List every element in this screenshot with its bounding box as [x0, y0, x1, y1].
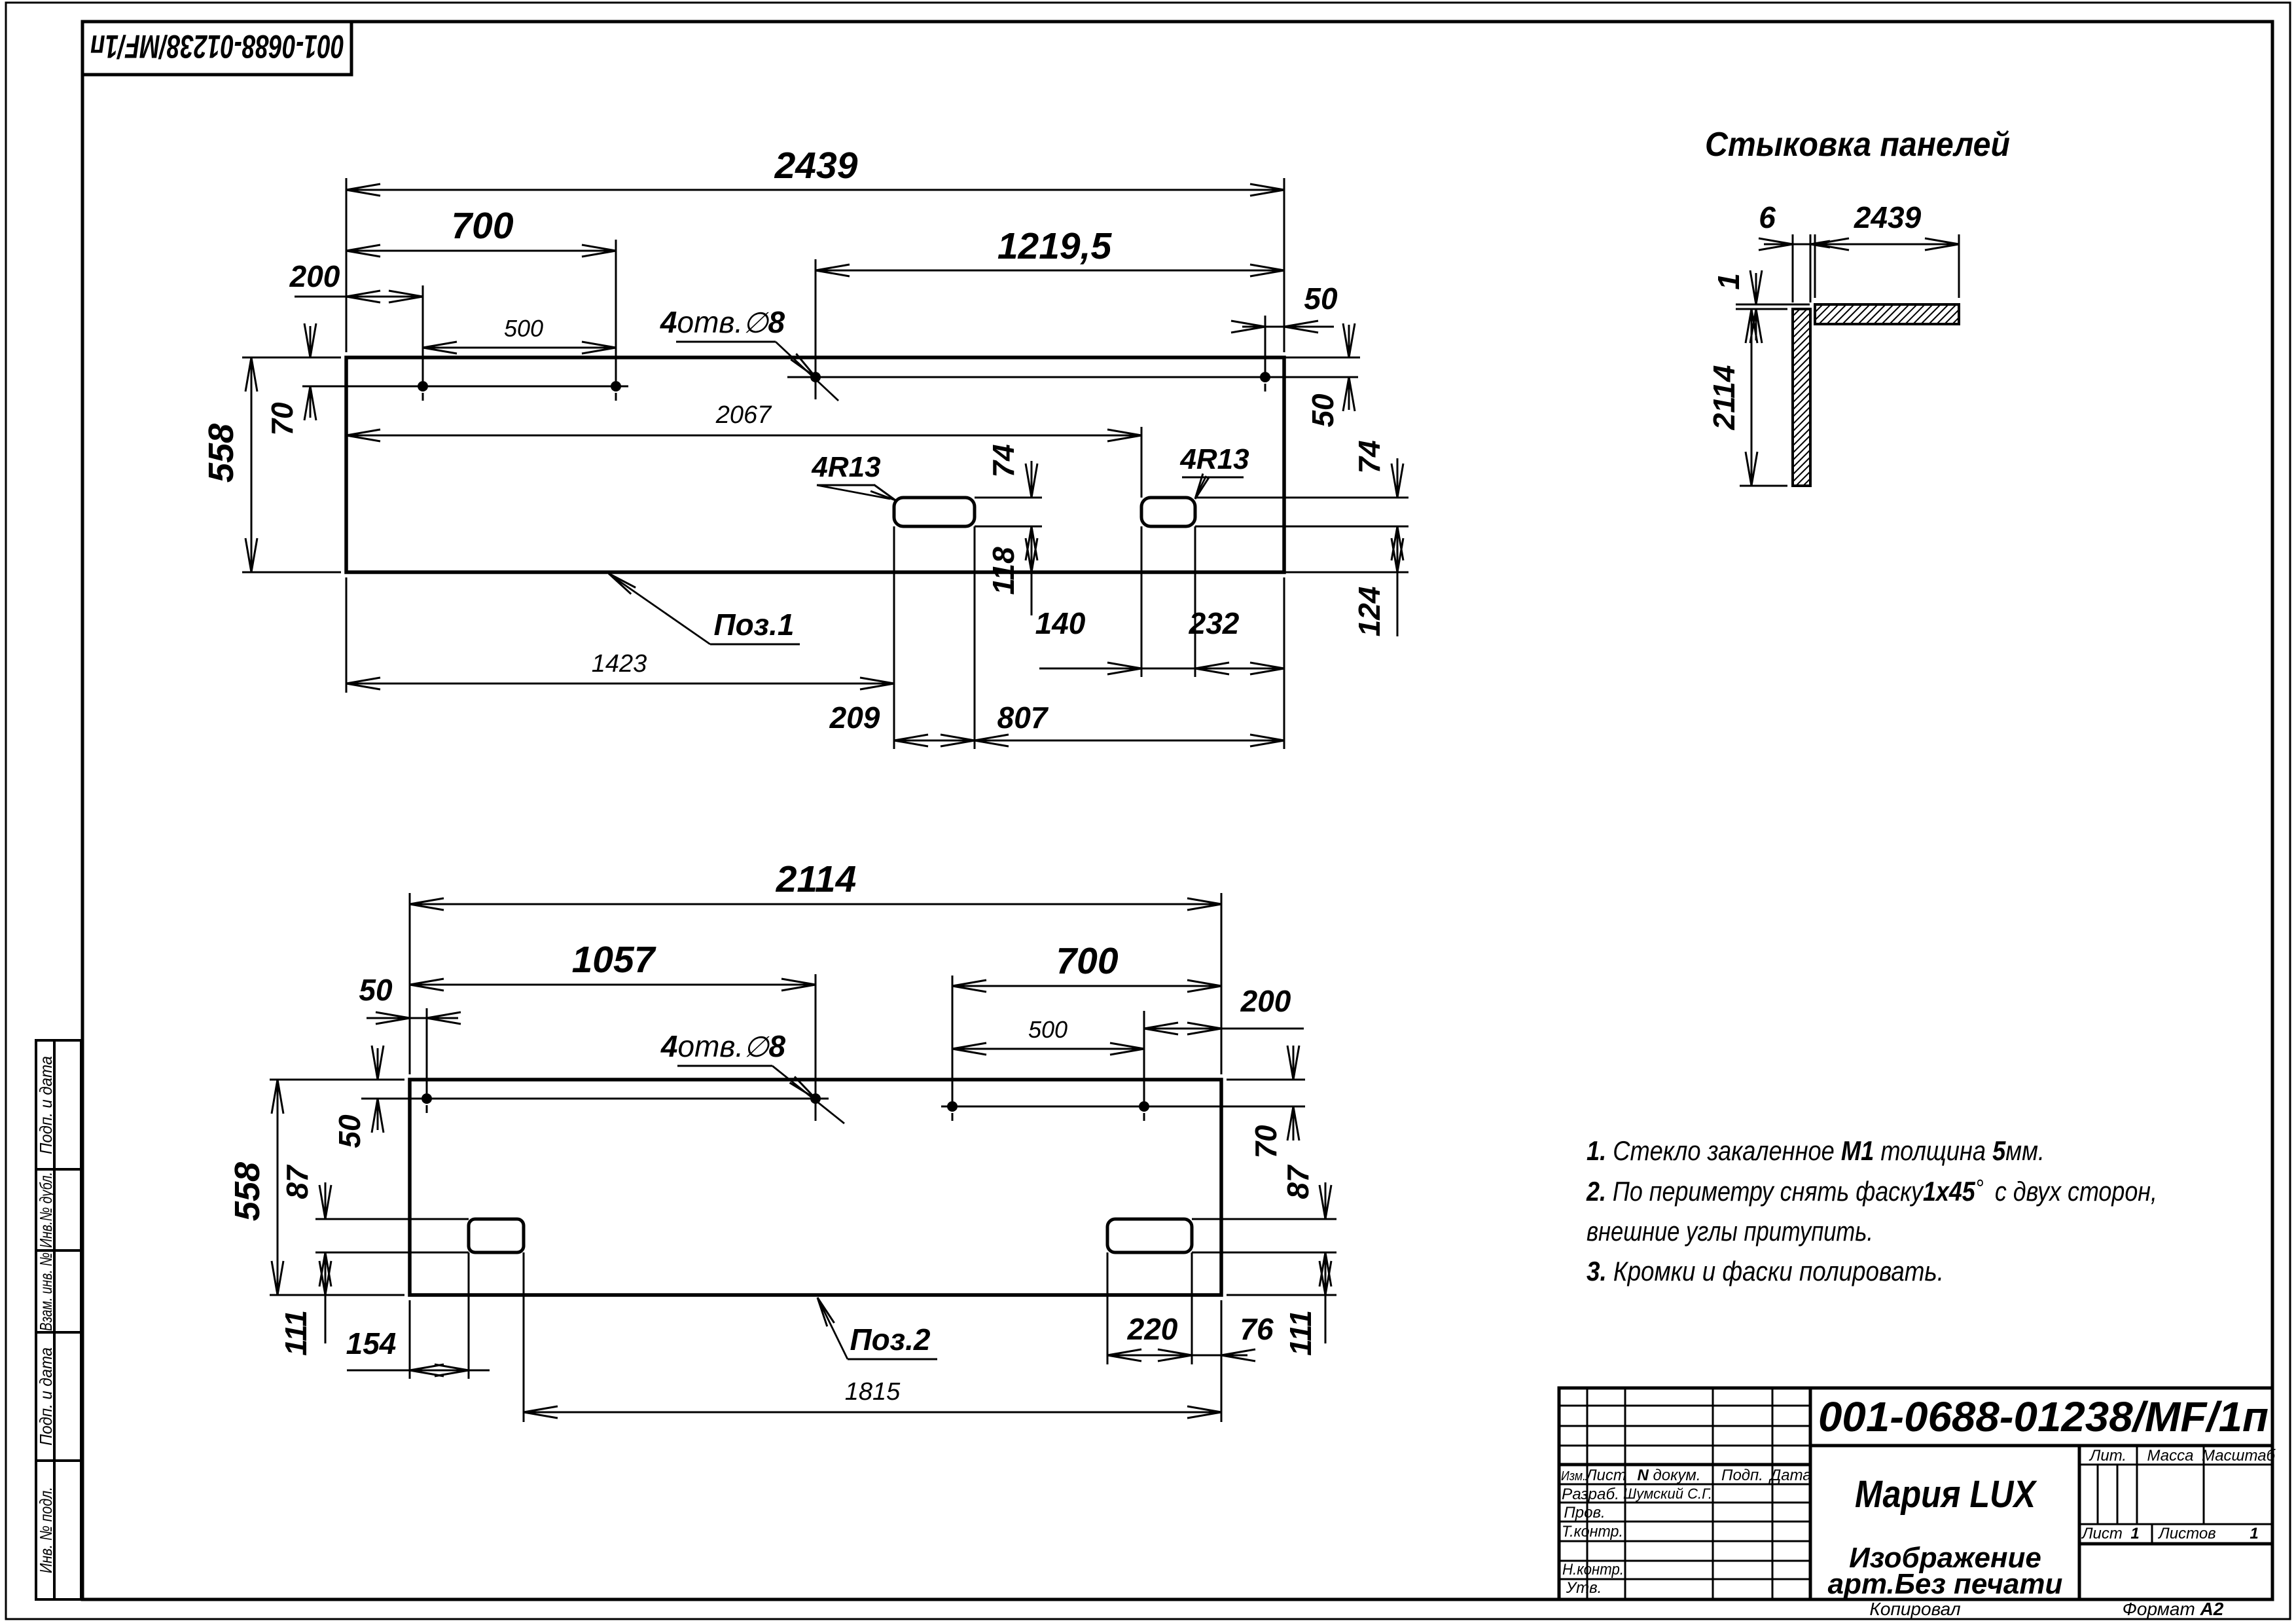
- dim 2439 text: [774, 145, 858, 187]
- panel 2 left holes line: [406, 1099, 816, 1113]
- dim 154 line: [347, 1364, 490, 1376]
- dim 232 text: [1189, 606, 1240, 640]
- svg-text:154: 154: [346, 1326, 397, 1360]
- svg-text:Копировал: Копировал: [1869, 1599, 1960, 1619]
- dim 50 p2 rot line: [372, 1046, 384, 1133]
- dim 1219,5 text: [997, 225, 1113, 267]
- title block small labels: [1561, 1467, 1812, 1597]
- ext p2 slot2 top right: [1192, 1218, 1336, 1220]
- svg-text:807: 807: [997, 701, 1049, 735]
- ext p2 bottom far left: [270, 1294, 404, 1296]
- svg-text:1219,5: 1219,5: [997, 225, 1113, 267]
- dim 87 left line: [319, 1182, 331, 1295]
- ext slot1 left down: [893, 526, 895, 749]
- note 2: [1586, 1175, 2157, 1207]
- svg-text:001-0688-01238/MF/1п: 001-0688-01238/MF/1п: [90, 28, 344, 65]
- ext hole line left: [302, 386, 418, 388]
- svg-text:111: 111: [279, 1310, 313, 1356]
- panel 1 slot left (4R13): [894, 498, 975, 526]
- svg-text:2439: 2439: [1854, 200, 1922, 234]
- svg-text:Шумский С.Г.: Шумский С.Г.: [1623, 1486, 1712, 1502]
- ext slot2 top right: [1195, 497, 1408, 499]
- svg-text:Мария LUX: Мария LUX: [1855, 1473, 2037, 1516]
- label Поз.2: [817, 1298, 937, 1359]
- label 4R13 slot1: [811, 451, 895, 500]
- dim 50 p2 line: [367, 1012, 461, 1024]
- ext line hole A up: [422, 285, 424, 381]
- ext panel2 left edge up: [409, 893, 411, 1074]
- svg-text:001-0688-01238/MF/1п: 001-0688-01238/MF/1п: [1818, 1393, 2269, 1440]
- panel 2 hole D: [1139, 1101, 1149, 1112]
- ext line hole B up: [615, 240, 617, 381]
- svg-text:2114: 2114: [776, 858, 857, 900]
- ext slot2 left down: [1141, 526, 1143, 677]
- svg-text:558: 558: [202, 424, 241, 483]
- svg-text:Разраб.: Разраб.: [1562, 1486, 1619, 1503]
- svg-text:1057: 1057: [572, 939, 656, 981]
- ext line hole D up: [1265, 316, 1266, 372]
- dim 200 line: [295, 291, 423, 302]
- ext line hole C up: [815, 259, 817, 372]
- ext p2 hole line left: [361, 1098, 419, 1100]
- dim 124 text: [1352, 587, 1386, 637]
- note 1: [1587, 1135, 2045, 1166]
- dim 2114 line: [410, 898, 1221, 910]
- detail dim 1: [1712, 270, 1762, 343]
- svg-text:Изм.: Изм.: [1561, 1469, 1586, 1484]
- dim 500 text: [504, 315, 543, 342]
- ext panel1 bottom left: [242, 572, 341, 574]
- title block grid: [1559, 1388, 2272, 1599]
- dim 220 text: [1127, 1312, 1178, 1346]
- svg-text:209: 209: [829, 701, 880, 735]
- detail dim 2439: [1815, 200, 1959, 250]
- doc number big: [1818, 1393, 2269, 1440]
- dim 1219,5 line: [816, 264, 1284, 276]
- dim 1057 text: [572, 939, 656, 981]
- panel 2 hole B: [810, 1093, 821, 1104]
- dim 2067 text: [715, 401, 772, 429]
- dim 50 right line: [1343, 323, 1355, 411]
- svg-text:Пров.: Пров.: [1564, 1504, 1605, 1522]
- label 4отв.⌀8 panel2: [660, 1029, 844, 1123]
- detail ext lines 1mm: [1736, 304, 1810, 309]
- svg-text:внешние углы притупить.: внешние углы притупить.: [1587, 1216, 1873, 1247]
- ext p2 hole B up: [815, 974, 817, 1093]
- svg-text:4отв.∅8: 4отв.∅8: [660, 1029, 786, 1063]
- ext p2 hole D up: [1143, 1011, 1145, 1101]
- dim 87 right text: [1281, 1164, 1315, 1199]
- svg-text:70: 70: [265, 402, 299, 436]
- dim 50 p2 rot text: [332, 1114, 367, 1148]
- dim 1057 line: [410, 979, 816, 991]
- detail title: [1705, 126, 2010, 164]
- dim 200 p2 text: [1240, 984, 1291, 1018]
- svg-text:70: 70: [1249, 1125, 1283, 1159]
- svg-text:Листов: Листов: [2157, 1525, 2215, 1542]
- dim 700 line: [346, 245, 616, 257]
- svg-text:2. По периметру снять фаску1х4: 2. По периметру снять фаску1х45° с двух …: [1586, 1175, 2157, 1207]
- dim 1815 line: [524, 1406, 1221, 1418]
- ext panel2 right edge up: [1221, 893, 1223, 1074]
- dim 500 p2 line: [952, 1043, 1144, 1055]
- dim 50 p2 text: [359, 973, 393, 1007]
- detail horizontal panel section: [1815, 304, 1959, 324]
- dim 1423 text: [592, 650, 647, 678]
- dim 2439 line: [346, 184, 1284, 196]
- dim 76 line: [1192, 1349, 1255, 1361]
- panel Поз.2 outline: [410, 1080, 1221, 1295]
- лит масса масштаб: [2089, 1447, 2276, 1465]
- dim 558 text: [202, 424, 241, 483]
- svg-text:Масштаб: Масштаб: [2202, 1447, 2276, 1465]
- svg-text:Утв.: Утв.: [1566, 1579, 1602, 1597]
- panel 2 hole A: [422, 1093, 432, 1104]
- svg-text:4R13: 4R13: [811, 451, 880, 483]
- svg-text:Масса: Масса: [2147, 1447, 2194, 1465]
- dim 87 right line: [1319, 1182, 1331, 1295]
- ext panel1 left down: [346, 577, 348, 693]
- svg-text:87: 87: [280, 1164, 314, 1199]
- ext slot1 top right: [975, 497, 1042, 499]
- dim 111 right text: [1283, 1310, 1318, 1356]
- ext slot2 bottom right: [1195, 526, 1408, 528]
- ext p2 slot1 top left: [315, 1218, 469, 1220]
- dim 700 text: [451, 205, 513, 247]
- panel 1 hole D: [1260, 372, 1270, 382]
- svg-text:Н.контр.: Н.контр.: [1562, 1561, 1624, 1578]
- svg-text:Лит.: Лит.: [2089, 1447, 2126, 1465]
- svg-text:232: 232: [1189, 606, 1240, 640]
- part name Мария LUX: [1855, 1473, 2037, 1516]
- ext p2 bottom right: [1227, 1294, 1336, 1296]
- dim 111 right tail: [1325, 1295, 1327, 1343]
- panel 2 slot left (4R13): [469, 1219, 524, 1252]
- dim 500 line: [423, 342, 616, 354]
- svg-text:4R13: 4R13: [1179, 443, 1249, 475]
- label Поз.1: [609, 574, 800, 644]
- svg-text:Подп. и дата: Подп. и дата: [36, 1347, 56, 1446]
- svg-text:1. Стекло закаленное М1 толщин: 1. Стекло закаленное М1 толщина 5мм.: [1587, 1135, 2045, 1166]
- ext p2 top far left: [270, 1079, 404, 1081]
- svg-text:87: 87: [1281, 1164, 1315, 1199]
- svg-text:3. Кромки и фаски полировать.: 3. Кромки и фаски полировать.: [1587, 1256, 1944, 1286]
- svg-text:50: 50: [332, 1114, 367, 1148]
- ext top edge left: [242, 357, 341, 359]
- dim 70 p2 line: [1287, 1046, 1299, 1140]
- dim 70 line: [304, 323, 316, 420]
- dim 50 TR line: [1231, 321, 1334, 333]
- dim 154 text: [346, 1326, 397, 1360]
- ext p2 hole A up: [426, 1008, 428, 1093]
- svg-text:Поз.1: Поз.1: [713, 608, 794, 642]
- svg-text:74: 74: [1352, 440, 1386, 473]
- svg-text:200: 200: [289, 259, 340, 293]
- detail ext lines top: [1793, 234, 1959, 302]
- ext panel1 bottom right: [1284, 572, 1408, 574]
- ext slot1 bottom right: [975, 526, 1042, 528]
- dim 220 line: [1107, 1349, 1192, 1361]
- dim 700 p2 text: [1056, 940, 1118, 982]
- svg-text:арт.Без печати: арт.Без печати: [1828, 1568, 2063, 1600]
- note 2b: [1587, 1216, 1873, 1247]
- svg-text:6: 6: [1759, 200, 1776, 234]
- svg-text:Т.контр.: Т.контр.: [1562, 1523, 1623, 1541]
- svg-text:50: 50: [1306, 393, 1340, 428]
- title Изображение: [1828, 1542, 2063, 1600]
- svg-text:500: 500: [1028, 1016, 1067, 1043]
- detail vertical panel section: [1793, 309, 1810, 486]
- ext top edge right: [1284, 357, 1360, 359]
- dim 200 text: [289, 259, 340, 293]
- dim 118 text: [986, 547, 1020, 595]
- svg-text:Подп. и дата: Подп. и дата: [36, 1056, 56, 1154]
- ext slot2 right down: [1194, 526, 1196, 677]
- detail dim 6: [1759, 200, 1830, 250]
- ext p2 top edge right: [1227, 1079, 1305, 1081]
- panel 1 slot right (4R13): [1141, 498, 1195, 526]
- panel Поз.1 outline: [346, 357, 1284, 572]
- ext p2 hole C up: [952, 976, 954, 1101]
- dim 70 p2 text: [1249, 1125, 1283, 1159]
- dim 2067 line: [346, 429, 1141, 441]
- ext p2 left down: [409, 1300, 411, 1379]
- ext line panel1 left edge up: [346, 178, 348, 352]
- dim 140 text: [1035, 606, 1086, 640]
- svg-text:1815: 1815: [845, 1378, 901, 1406]
- svg-text:Лист: Лист: [1585, 1467, 1626, 1484]
- svg-text:50: 50: [1304, 282, 1338, 316]
- svg-text:76: 76: [1240, 1312, 1274, 1346]
- dim 50 right text: [1306, 393, 1340, 428]
- dim 807 text: [997, 701, 1049, 735]
- ext p2 slot2 left down: [1107, 1252, 1109, 1364]
- dim 70 text: [265, 402, 299, 436]
- dim 50 TR text: [1304, 282, 1338, 316]
- dim 558 line: [245, 357, 257, 572]
- dim 500 p2 text: [1028, 1016, 1067, 1043]
- svg-text:Формат А2: Формат А2: [2123, 1599, 2224, 1619]
- svg-text:1423: 1423: [592, 650, 647, 678]
- копировал формат: [1869, 1599, 2223, 1619]
- svg-text:50: 50: [359, 973, 393, 1007]
- dim 111 left tail: [325, 1295, 327, 1343]
- svg-text:500: 500: [504, 315, 543, 342]
- svg-text:124: 124: [1352, 587, 1386, 637]
- ext panel1 right down: [1283, 577, 1285, 749]
- svg-text:111: 111: [1283, 1310, 1318, 1356]
- svg-text:2439: 2439: [774, 145, 858, 187]
- dim 74 slot1 text: [986, 444, 1020, 477]
- ext slot1 right down: [974, 526, 976, 749]
- ext p2 slot2 bottom right: [1192, 1252, 1336, 1254]
- dim 87 left text: [280, 1164, 314, 1199]
- svg-text:700: 700: [451, 205, 513, 247]
- svg-text:Поз.2: Поз.2: [850, 1322, 930, 1357]
- dim 558 p2 line: [272, 1080, 283, 1295]
- svg-text:Инв.№ дубл.: Инв.№ дубл.: [36, 1172, 56, 1248]
- left margin boxes: [36, 1040, 81, 1599]
- ext p2 right down: [1221, 1300, 1223, 1422]
- dim 209 line: [894, 735, 975, 746]
- ext p2 slot2 right down: [1191, 1252, 1193, 1364]
- panel 2 hole C: [947, 1101, 958, 1112]
- label 4R13 slot2: [1179, 443, 1249, 499]
- svg-text:2067: 2067: [715, 401, 772, 429]
- svg-text:4отв.∅8: 4отв.∅8: [660, 305, 785, 339]
- svg-text:220: 220: [1127, 1312, 1178, 1346]
- svg-text:Инв. № подл.: Инв. № подл.: [36, 1487, 56, 1573]
- top-left stamp box: [82, 22, 351, 75]
- svg-text:1: 1: [2130, 1525, 2139, 1542]
- dim 111 left text: [279, 1310, 313, 1356]
- dim 74 slot2 line: [1391, 458, 1403, 636]
- dim 1815 text: [845, 1378, 901, 1406]
- ext p2 slot1 right down: [523, 1252, 525, 1422]
- svg-text:Стыковка панелей: Стыковка панелей: [1705, 126, 2010, 164]
- note 3: [1587, 1256, 1944, 1286]
- dim 1423 line: [346, 678, 894, 689]
- ext line panel1 right edge up: [1283, 178, 1285, 352]
- detail dim 2114: [1707, 309, 1757, 486]
- svg-text:2114: 2114: [1707, 365, 1741, 431]
- dim 2114 text: [776, 858, 857, 900]
- svg-text:140: 140: [1035, 606, 1086, 640]
- dim 807 line: [975, 735, 1284, 746]
- ext slot2-left down: [1141, 427, 1143, 498]
- svg-text:1: 1: [2250, 1525, 2258, 1542]
- ext p2 slot1 left down: [468, 1252, 470, 1379]
- dim 76 text: [1240, 1312, 1274, 1346]
- ext p2 slot1 bottom left: [315, 1252, 469, 1254]
- svg-text:558: 558: [228, 1162, 267, 1221]
- detail ext bottom: [1740, 485, 1787, 487]
- svg-text:74: 74: [986, 444, 1020, 477]
- top-left stamp text (rotated 180): [90, 28, 344, 65]
- panel 1 right holes line: [816, 377, 1358, 392]
- svg-text:Лист: Лист: [2081, 1525, 2123, 1542]
- panel 2 slot right (4R13): [1107, 1219, 1192, 1252]
- svg-text:Дата: Дата: [1768, 1467, 1811, 1484]
- panel 1 hole B: [611, 381, 621, 392]
- panel 1 hole A: [418, 381, 428, 392]
- svg-text:700: 700: [1056, 940, 1118, 982]
- dim 700 p2 line: [952, 980, 1221, 992]
- panel 2 right holes line: [941, 1106, 1157, 1121]
- svg-text:Взам. инв. №: Взам. инв. №: [36, 1252, 56, 1331]
- лист листов: [2081, 1525, 2259, 1542]
- svg-text:118: 118: [986, 547, 1020, 595]
- left margin labels: [36, 1056, 56, 1573]
- ext p2 top edge left: [361, 1079, 404, 1081]
- svg-text:Подп.: Подп.: [1721, 1467, 1763, 1484]
- svg-text:1: 1: [1712, 273, 1746, 290]
- dim 200 p2 line: [1144, 1023, 1304, 1034]
- ext p2 bottom left: [315, 1294, 404, 1296]
- label 4отв.⌀8 panel1: [660, 305, 838, 401]
- dim 558 p2 text: [228, 1162, 267, 1221]
- panel 1 left holes line: [401, 386, 628, 401]
- dim 74 slot2 text: [1352, 440, 1386, 473]
- dim 140-232 line: [1039, 663, 1284, 674]
- panel 1 hole C: [810, 372, 821, 382]
- svg-text:N докум.: N докум.: [1637, 1467, 1700, 1484]
- svg-text:200: 200: [1240, 984, 1291, 1018]
- ext p2 hole line right: [1157, 1106, 1305, 1108]
- dim 74 slot1 line: [1026, 461, 1037, 615]
- dim 209 text: [829, 701, 880, 735]
